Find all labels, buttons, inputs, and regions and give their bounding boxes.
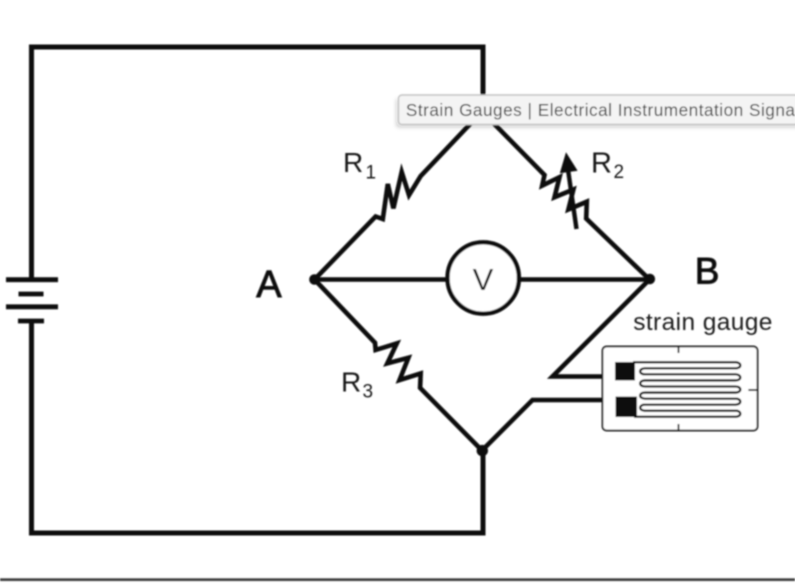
svg-text:Strain Gauges | Electrical Ins: Strain Gauges | Electrical Instrumentati… xyxy=(406,100,795,120)
svg-text:R: R xyxy=(341,367,361,398)
svg-text:2: 2 xyxy=(614,162,625,183)
strain gauge serpentine grid xyxy=(633,362,740,416)
wire: top rail from battery top to top-right corner xyxy=(32,47,484,279)
svg-text:R: R xyxy=(343,147,363,178)
bottom divider line xyxy=(0,578,795,581)
bottom junction dot xyxy=(477,445,488,456)
tooltip box: Strain Gauges | Electrical Instrumentation xyxy=(399,95,795,125)
wire: bridge arm A to top apex with resistor R1 xyxy=(315,112,483,280)
svg-text:A: A xyxy=(256,264,282,306)
strain gauge alignment tick bottom xyxy=(678,424,680,431)
svg-text:strain gauge: strain gauge xyxy=(633,309,773,336)
svg-text:1: 1 xyxy=(366,163,377,184)
strain gauge body outline xyxy=(603,347,758,431)
arrow of variable resistor R2 xyxy=(568,166,577,229)
tooltip shadow xyxy=(397,99,795,127)
strain gauge lower terminal pad xyxy=(616,397,638,418)
node B junction dot xyxy=(645,274,656,285)
node A junction dot xyxy=(309,274,320,285)
wire: bridge arm A to bottom junction with resistor R3 xyxy=(315,280,483,451)
wire: bridge arm top apex to B with resistor R2 xyxy=(482,112,650,280)
battery B1 xyxy=(6,280,58,321)
wire: from node B down-left to strain gauge upper lead xyxy=(553,280,650,377)
strain gauge upper terminal pad xyxy=(615,362,635,381)
wire: from bottom junction up-right to strain gauge lower lead xyxy=(482,400,617,451)
strain gauge alignment tick top xyxy=(678,347,680,354)
svg-text:3: 3 xyxy=(363,382,374,403)
wire: horizontal galvanometer branch A to B xyxy=(315,277,650,282)
strain gauge alignment tick right xyxy=(748,389,757,391)
svg-text:R: R xyxy=(591,148,612,180)
wire: battery bottom lead down the left side xyxy=(32,321,484,533)
svg-text:B: B xyxy=(695,251,720,292)
voltmeter V (circle) xyxy=(448,242,519,313)
svg-text:V: V xyxy=(473,262,494,297)
